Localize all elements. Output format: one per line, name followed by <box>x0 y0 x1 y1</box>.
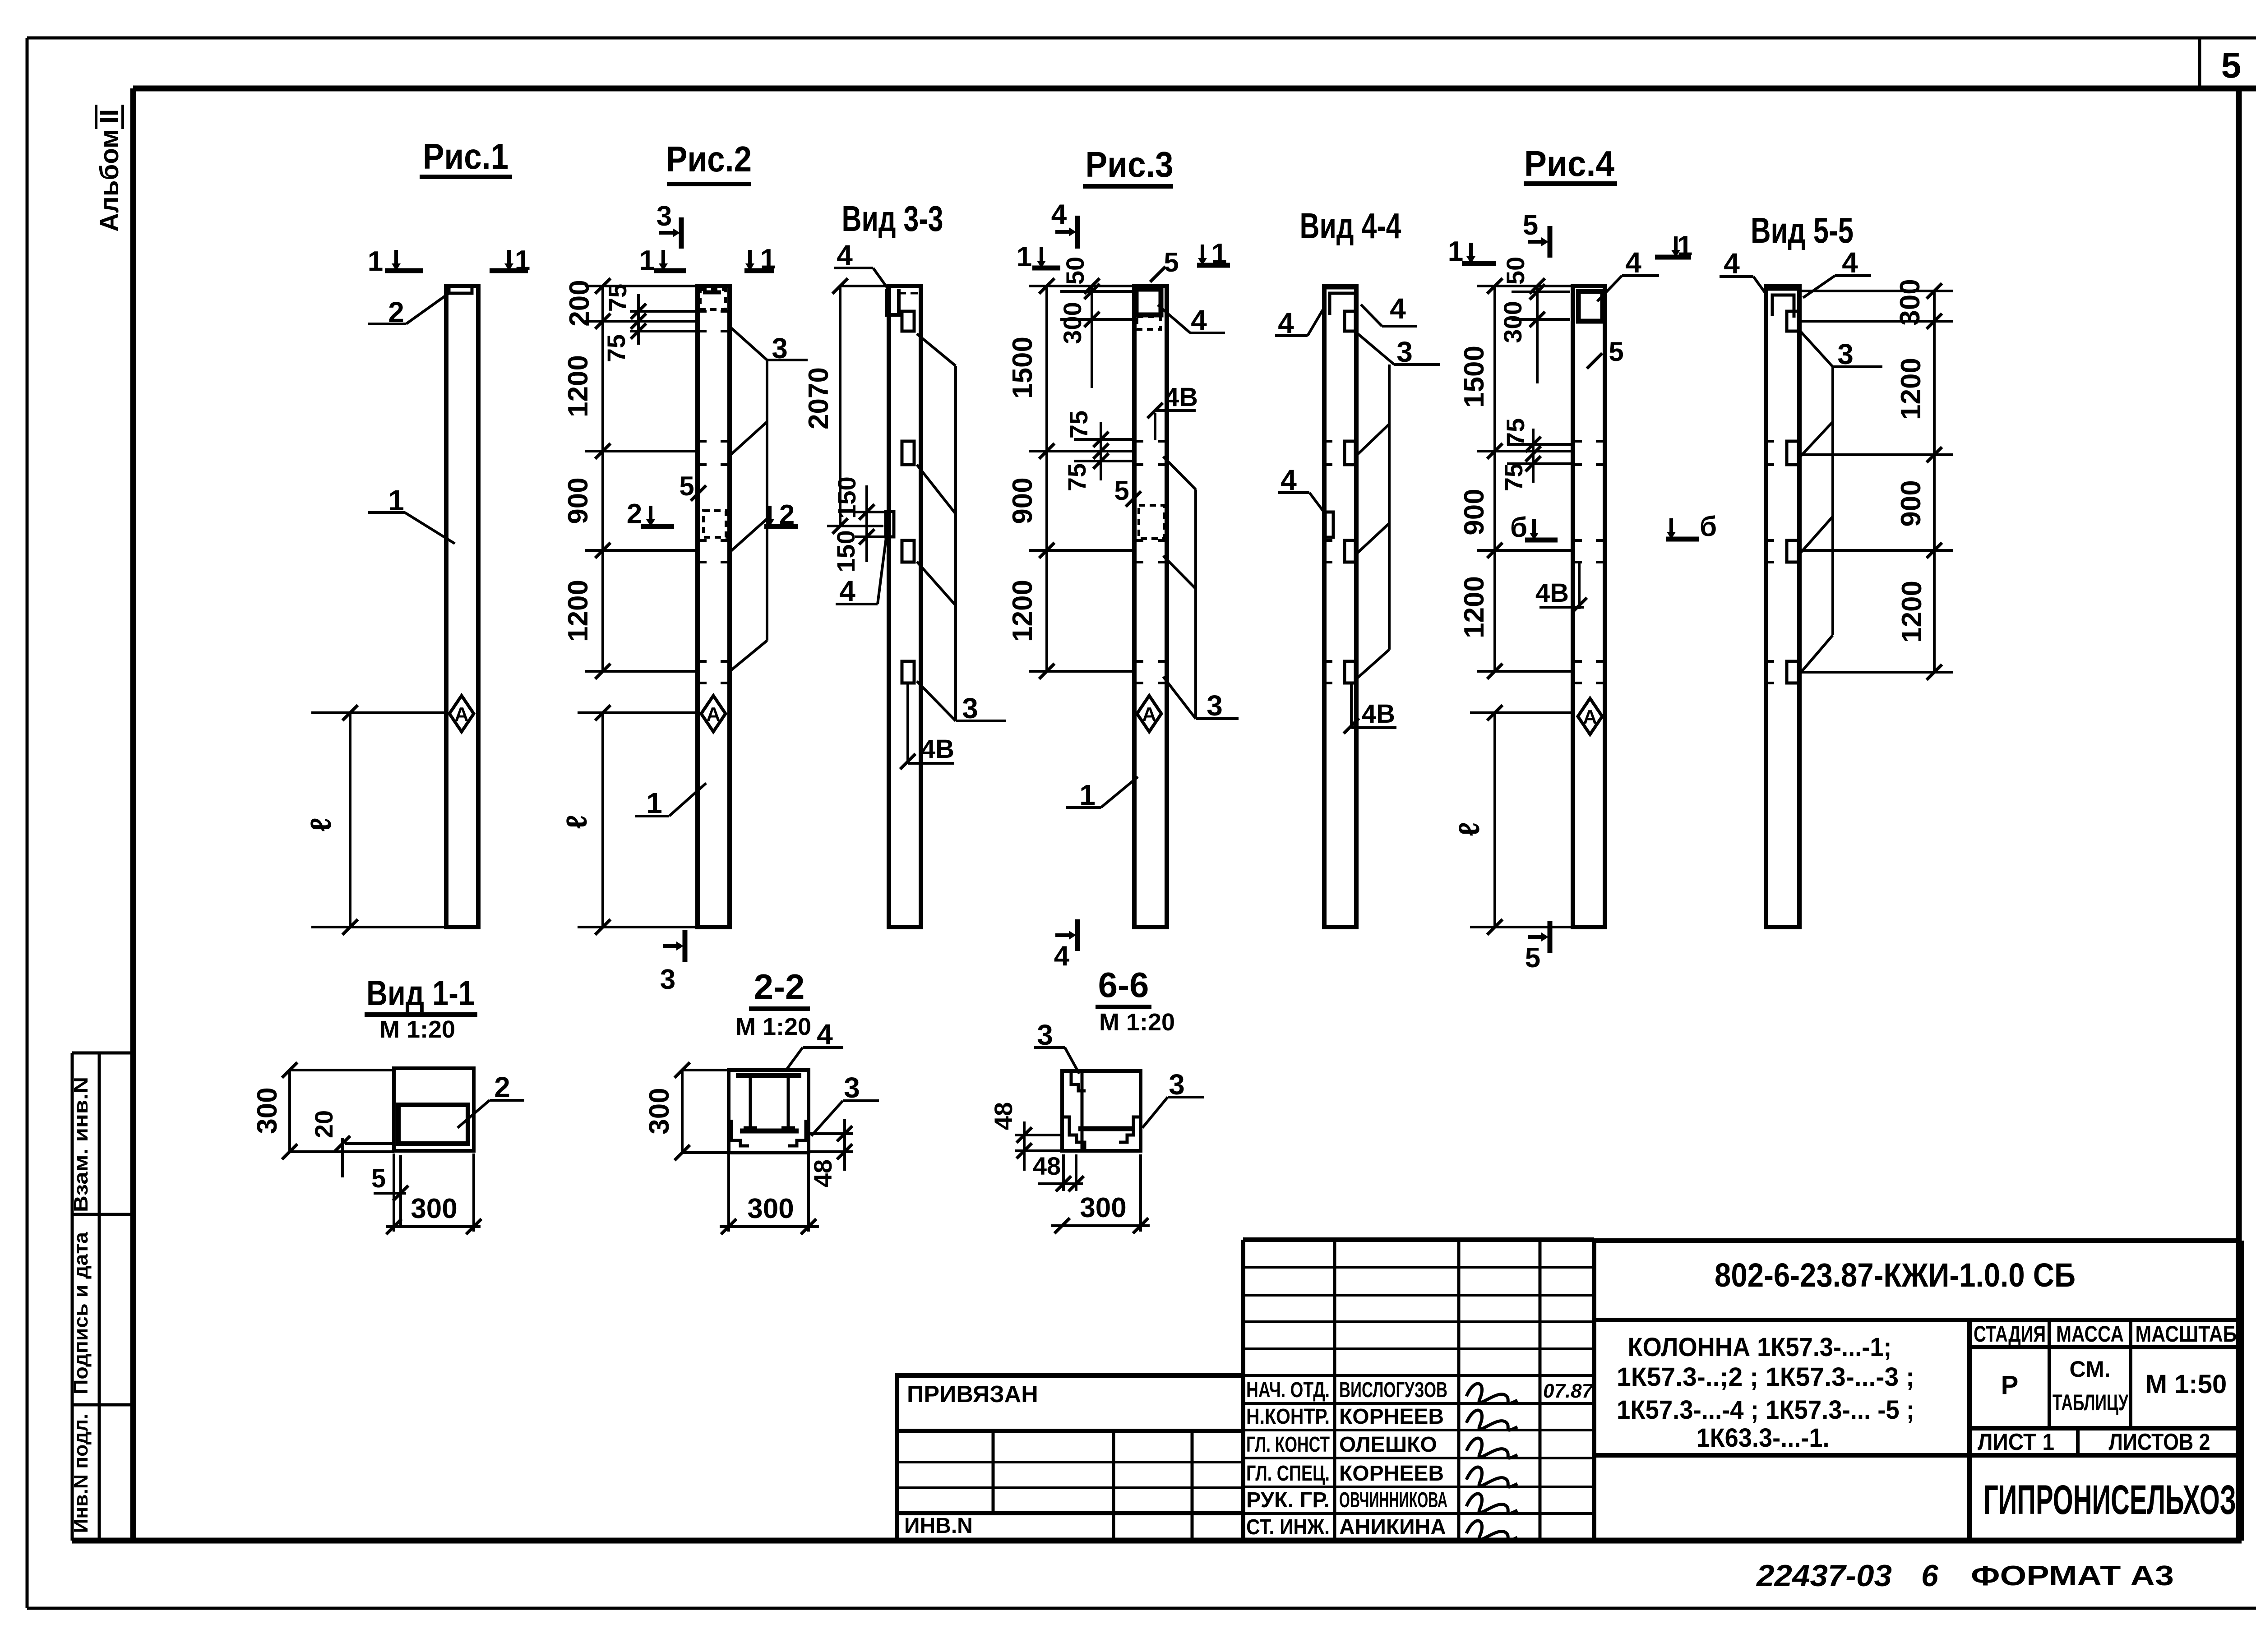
svg-text:300: 300 <box>411 1193 457 1224</box>
svg-text:4: 4 <box>1724 247 1740 280</box>
svg-text:Подпись и дата: Подпись и дата <box>70 1232 92 1394</box>
svg-text:1: 1 <box>760 244 776 275</box>
svg-text:1К63.3-...-1.: 1К63.3-...-1. <box>1697 1423 1830 1453</box>
svg-text:20: 20 <box>310 1110 338 1138</box>
svg-text:1К57.3-..;2 ; 1К57.3-...-3 ;: 1К57.3-..;2 ; 1К57.3-...-3 ; <box>1617 1362 1914 1392</box>
svg-text:1500: 1500 <box>1459 346 1490 408</box>
svg-text:1: 1 <box>1448 236 1463 267</box>
svg-text:4В: 4В <box>1165 383 1198 412</box>
svg-text:М 1:50: М 1:50 <box>2145 1370 2227 1399</box>
svg-text:1200: 1200 <box>1459 576 1490 638</box>
svg-text:ТАБЛИЦУ: ТАБЛИЦУ <box>2053 1390 2129 1415</box>
svg-text:СТ. ИНЖ.: СТ. ИНЖ. <box>1246 1515 1330 1539</box>
svg-text:3: 3 <box>1169 1068 1185 1101</box>
svg-text:б: б <box>1700 511 1717 542</box>
svg-text:1: 1 <box>1211 238 1227 269</box>
svg-text:1: 1 <box>1017 241 1032 272</box>
svg-text:3: 3 <box>772 332 788 365</box>
svg-text:Р: Р <box>2001 1371 2019 1400</box>
svg-text:А: А <box>706 703 721 725</box>
svg-text:Взам. инв.N: Взам. инв.N <box>70 1077 92 1212</box>
svg-text:ОЛЕШКО: ОЛЕШКО <box>1339 1433 1437 1457</box>
svg-text:2: 2 <box>494 1071 510 1103</box>
svg-text:Вид 4-4: Вид 4-4 <box>1300 206 1401 246</box>
svg-text:07.87: 07.87 <box>1543 1380 1594 1402</box>
svg-text:ФОРМАТ А3: ФОРМАТ А3 <box>1971 1560 2174 1592</box>
svg-text:4: 4 <box>1625 246 1641 279</box>
svg-text:М 1:20: М 1:20 <box>1099 1009 1175 1036</box>
svg-text:Н.КОНТР.: Н.КОНТР. <box>1246 1405 1330 1429</box>
svg-text:300: 300 <box>252 1087 283 1134</box>
svg-text:1К57.3-...-4 ; 1К57.3-... -5: 1К57.3-...-4 ; 1К57.3-... -5 ; <box>1617 1395 1914 1425</box>
svg-text:ГИПРОНИСЕЛЬХОЗ: ГИПРОНИСЕЛЬХОЗ <box>1983 1477 2236 1523</box>
svg-text:900: 900 <box>1459 489 1490 535</box>
svg-text:6-6: 6-6 <box>1098 965 1149 1005</box>
svg-text:150: 150 <box>832 530 860 572</box>
svg-text:75: 75 <box>602 334 630 362</box>
svg-text:4: 4 <box>1051 199 1067 230</box>
svg-text:ЛИСТ 1: ЛИСТ 1 <box>1978 1429 2054 1455</box>
svg-text:22437-03: 22437-03 <box>1756 1559 1892 1593</box>
svg-text:ГЛ. СПЕЦ.: ГЛ. СПЕЦ. <box>1246 1462 1330 1486</box>
svg-text:75: 75 <box>1064 411 1093 438</box>
svg-text:48: 48 <box>1033 1152 1061 1180</box>
svg-text:АНИКИНА: АНИКИНА <box>1339 1515 1446 1539</box>
svg-text:4: 4 <box>1054 941 1070 972</box>
svg-text:ℓ: ℓ <box>560 815 593 829</box>
svg-text:3: 3 <box>1207 689 1223 722</box>
svg-text:3: 3 <box>844 1071 860 1104</box>
svg-text:Вид 3-3: Вид 3-3 <box>842 198 943 239</box>
svg-text:5: 5 <box>1523 210 1538 241</box>
svg-text:900: 900 <box>1007 477 1038 524</box>
svg-text:300: 300 <box>1058 302 1086 344</box>
svg-text:3: 3 <box>1396 336 1413 368</box>
svg-text:А: А <box>1583 706 1597 728</box>
svg-text:СТАДИЯ: СТАДИЯ <box>1974 1321 2046 1347</box>
svg-text:Вид 1-1: Вид 1-1 <box>366 973 475 1013</box>
svg-text:300: 300 <box>1080 1192 1126 1223</box>
svg-text:5: 5 <box>1164 247 1179 277</box>
svg-text:А: А <box>1142 703 1156 725</box>
svg-text:НАЧ. ОТД.: НАЧ. ОТД. <box>1246 1378 1330 1402</box>
svg-text:300: 300 <box>1498 301 1527 343</box>
svg-text:900: 900 <box>563 477 594 524</box>
svg-text:4В: 4В <box>1535 578 1569 608</box>
svg-text:50: 50 <box>1501 257 1530 285</box>
svg-text:РУК. ГР.: РУК. ГР. <box>1246 1488 1330 1512</box>
svg-text:1: 1 <box>388 484 404 517</box>
svg-text:4: 4 <box>839 575 855 607</box>
svg-text:75: 75 <box>1499 463 1528 491</box>
svg-text:ГЛ. КОНСТ: ГЛ. КОНСТ <box>1246 1433 1330 1457</box>
svg-text:1: 1 <box>1677 231 1692 262</box>
svg-text:Рис.2: Рис.2 <box>666 139 752 179</box>
svg-text:3: 3 <box>1837 338 1854 370</box>
svg-text:75: 75 <box>603 284 632 312</box>
svg-text:СМ.: СМ. <box>2070 1357 2111 1382</box>
svg-text:5: 5 <box>1525 942 1540 974</box>
svg-text:ИНВ.N: ИНВ.N <box>904 1514 973 1538</box>
svg-text:КОРНЕЕВ: КОРНЕЕВ <box>1339 1405 1444 1429</box>
svg-text:1: 1 <box>368 246 383 277</box>
svg-text:1200: 1200 <box>1896 581 1928 643</box>
svg-text:200: 200 <box>564 280 595 326</box>
svg-text:4: 4 <box>837 239 853 272</box>
svg-text:3: 3 <box>1037 1019 1053 1051</box>
svg-text:4: 4 <box>1191 304 1207 337</box>
svg-text:Рис.3: Рис.3 <box>1086 144 1174 185</box>
svg-text:ℓ: ℓ <box>1453 822 1485 836</box>
svg-text:4: 4 <box>1281 464 1297 496</box>
svg-text:2-2: 2-2 <box>754 967 805 1006</box>
svg-text:802-6-23.87-КЖИ-1.0.0 СБ: 802-6-23.87-КЖИ-1.0.0 СБ <box>1715 1256 2076 1294</box>
svg-text:5: 5 <box>371 1164 386 1193</box>
svg-text:48: 48 <box>989 1102 1017 1130</box>
svg-text:4: 4 <box>1842 246 1858 279</box>
svg-text:6: 6 <box>1921 1559 1939 1593</box>
svg-text:1: 1 <box>515 245 530 276</box>
svg-text:2: 2 <box>779 499 795 531</box>
svg-text:2: 2 <box>627 498 642 530</box>
svg-text:3: 3 <box>656 201 672 232</box>
svg-text:5: 5 <box>1114 475 1129 506</box>
svg-text:ОВЧИННИКОВА: ОВЧИННИКОВА <box>1339 1488 1447 1512</box>
svg-text:МАСШТАБ: МАСШТАБ <box>2136 1321 2237 1347</box>
svg-text:1200: 1200 <box>563 355 594 417</box>
svg-text:КОРНЕЕВ: КОРНЕЕВ <box>1339 1462 1444 1486</box>
svg-text:1200: 1200 <box>563 580 594 642</box>
svg-text:4В: 4В <box>1362 699 1395 729</box>
svg-text:ЛИСТОВ 2: ЛИСТОВ 2 <box>2109 1429 2210 1455</box>
svg-text:МАССА: МАССА <box>2056 1321 2124 1347</box>
svg-text:300: 300 <box>1895 279 1926 325</box>
svg-text:75: 75 <box>1501 418 1530 446</box>
svg-text:Рис.1: Рис.1 <box>423 136 509 176</box>
svg-text:150: 150 <box>832 476 861 518</box>
svg-text:ℓ: ℓ <box>305 817 337 831</box>
svg-text:2: 2 <box>388 296 404 328</box>
svg-text:5: 5 <box>679 471 694 501</box>
svg-text:1200: 1200 <box>1007 580 1038 642</box>
svg-text:М 1:20: М 1:20 <box>735 1013 811 1040</box>
svg-text:1200: 1200 <box>1895 358 1927 420</box>
svg-text:Вид 5-5: Вид 5-5 <box>1751 210 1854 250</box>
svg-text:4: 4 <box>1390 292 1406 325</box>
svg-text:75: 75 <box>1063 463 1091 491</box>
svg-text:1: 1 <box>646 787 662 819</box>
svg-text:50: 50 <box>1061 257 1089 285</box>
svg-text:II: II <box>95 109 124 124</box>
svg-text:КОЛОННА 1К57.3-...-1;: КОЛОННА 1К57.3-...-1; <box>1628 1333 1892 1362</box>
svg-text:ВИСЛОГУЗОВ: ВИСЛОГУЗОВ <box>1339 1378 1447 1402</box>
svg-text:Альбом: Альбом <box>95 129 124 232</box>
svg-text:4: 4 <box>1278 307 1294 339</box>
svg-text:4: 4 <box>817 1018 833 1051</box>
svg-text:300: 300 <box>644 1088 675 1134</box>
svg-text:5: 5 <box>2221 45 2242 85</box>
svg-text:3: 3 <box>962 692 978 724</box>
svg-text:А: А <box>454 703 469 725</box>
svg-text:б: б <box>1510 512 1527 543</box>
svg-text:1: 1 <box>639 245 655 276</box>
svg-text:900: 900 <box>1895 480 1927 526</box>
svg-text:М 1:20: М 1:20 <box>379 1016 455 1043</box>
svg-text:1: 1 <box>1079 779 1096 811</box>
svg-text:ПРИВЯЗАН: ПРИВЯЗАН <box>907 1381 1038 1407</box>
svg-text:1500: 1500 <box>1007 337 1038 399</box>
svg-text:4В: 4В <box>921 734 954 764</box>
svg-text:48: 48 <box>809 1159 837 1187</box>
svg-text:2070: 2070 <box>803 367 834 429</box>
svg-text:5: 5 <box>1609 337 1623 367</box>
svg-text:Инв.N подл.: Инв.N подл. <box>70 1414 92 1533</box>
svg-text:300: 300 <box>747 1193 794 1224</box>
svg-text:Рис.4: Рис.4 <box>1524 143 1614 184</box>
svg-text:3: 3 <box>660 964 675 995</box>
